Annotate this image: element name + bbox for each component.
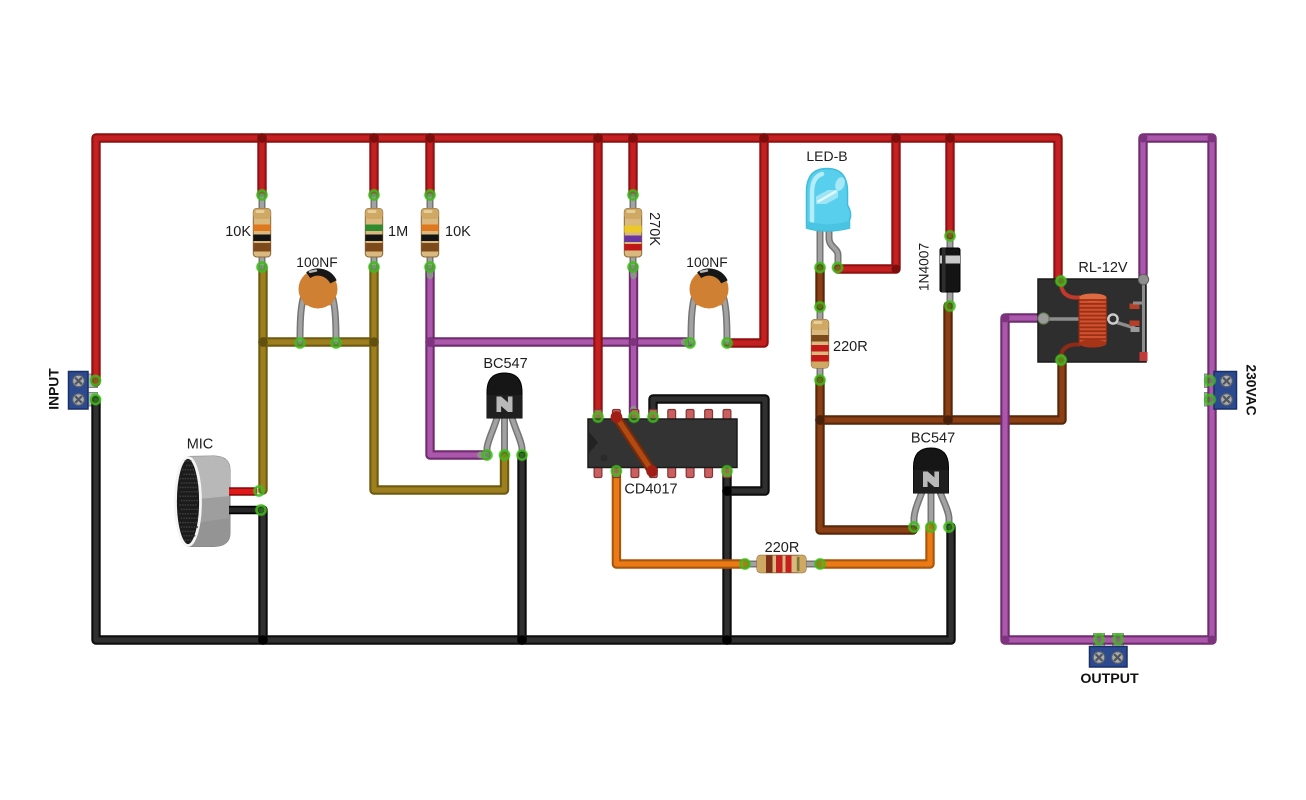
node R4 bottom xyxy=(627,261,640,274)
wire orange 220R to Q2 base xyxy=(820,527,930,564)
diode 1N4007 leads xyxy=(947,234,954,306)
resistor R2 1M xyxy=(365,209,382,258)
wire orange jumper over U1 xyxy=(611,411,658,477)
wire red drop to R4 270K xyxy=(628,138,637,195)
junction rail-D1 xyxy=(945,133,955,143)
wire red drop to R2 1M xyxy=(369,138,378,195)
relay armature xyxy=(1044,317,1110,320)
IC U1 CD4017 xyxy=(588,410,737,478)
junction loop-IC8 xyxy=(722,486,732,496)
node Q1 emitter xyxy=(516,449,529,462)
pin top 7 xyxy=(705,410,713,421)
resistor R1 10K leads xyxy=(259,196,266,267)
junction gnd-IC8 xyxy=(722,635,732,645)
node IC pin14 xyxy=(628,411,641,424)
capacitor C1 100NF xyxy=(299,270,338,309)
transistor Q2 BC547 xyxy=(914,448,949,493)
wire red main rail + input feed + relay feed xyxy=(96,138,1058,382)
svg-text:BC547: BC547 xyxy=(483,356,527,372)
mic black lead xyxy=(229,506,260,515)
junction pur-c4 xyxy=(1001,636,1010,645)
pin top 2 xyxy=(613,410,621,421)
node IC pin13 xyxy=(647,411,660,424)
svg-text:230VAC: 230VAC xyxy=(1244,364,1259,415)
svg-text:1M: 1M xyxy=(388,224,408,240)
node R2 top xyxy=(368,189,381,202)
pin bottom 8 xyxy=(723,467,731,478)
relay coil feed wires xyxy=(1061,282,1080,298)
capacitor C2 100NF leads xyxy=(691,299,727,342)
mic face xyxy=(176,458,201,546)
node C1 right xyxy=(330,337,343,350)
node D1 top xyxy=(944,230,957,243)
wire red drop to R3 10K xyxy=(425,138,434,195)
svg-text:10K: 10K xyxy=(225,224,251,240)
pin bottom 5 xyxy=(668,467,676,478)
node input pin2 xyxy=(89,393,102,406)
diode D1 1N4007 xyxy=(940,248,960,292)
pin bottom 3 xyxy=(631,467,639,478)
transistor Q1 BC547 xyxy=(487,373,522,418)
wire olive R2 1M to Q1 base xyxy=(374,267,505,490)
svg-text:CD4017: CD4017 xyxy=(624,482,677,498)
LED LED-B leads xyxy=(817,226,824,266)
terminal INPUT clamp pads xyxy=(87,374,98,388)
pin bottom 6 xyxy=(686,467,694,478)
svg-text:270K: 270K xyxy=(646,212,662,246)
relay coil xyxy=(1079,296,1107,344)
resistor R7 220R xyxy=(757,555,806,572)
svg-text:100NF: 100NF xyxy=(686,255,727,270)
node output pin2 xyxy=(1112,633,1125,646)
relay pin top-right xyxy=(1138,274,1148,284)
junction brown-T1 xyxy=(815,415,825,425)
wire black IC reset loop xyxy=(653,399,765,491)
junction pur-c3 xyxy=(1208,636,1217,645)
svg-text:1N4007: 1N4007 xyxy=(917,243,932,291)
node R5 bottom xyxy=(814,374,827,387)
junction rail-C2 xyxy=(759,133,769,143)
resistor R3 10K leads xyxy=(427,196,434,267)
wire brown 220R to Q2 collector xyxy=(820,380,913,530)
svg-text:RL-12V: RL-12V xyxy=(1078,260,1127,276)
node mic plus xyxy=(253,485,266,498)
svg-text:LED-B: LED-B xyxy=(806,148,847,164)
wire purple branch to C2 left xyxy=(430,337,690,346)
junction olive-T2 xyxy=(369,337,379,347)
relay pin mid-left xyxy=(1038,313,1049,324)
node IC pin16 xyxy=(592,411,605,424)
pin top 3 xyxy=(631,410,639,421)
svg-text:100NF: 100NF xyxy=(296,255,337,270)
resistor R2 1M leads xyxy=(371,196,378,267)
wire black IC pin8 to ground xyxy=(722,471,731,640)
node R1 top xyxy=(256,189,269,202)
node Q1 collector xyxy=(481,449,494,462)
relay pin top-left xyxy=(1056,276,1066,286)
svg-text:220R: 220R xyxy=(833,339,868,355)
node R4 top xyxy=(627,189,640,202)
resistor R5 220R leads xyxy=(817,306,824,380)
junction purple-T xyxy=(425,337,435,347)
terminal 230VAC clamp pads xyxy=(1205,374,1216,388)
wire brown LED anode chain to 220R xyxy=(815,268,824,306)
node C2 right xyxy=(721,337,734,350)
svg-text:MIC: MIC xyxy=(187,437,214,453)
wire olive R1 to mic+ xyxy=(258,267,267,490)
junction LED corner xyxy=(892,265,901,274)
terminal INPUT xyxy=(69,372,89,410)
node mic minus xyxy=(255,504,268,517)
junction pur-c1 xyxy=(1139,134,1148,143)
pin bottom 1 xyxy=(594,467,602,478)
mic red lead xyxy=(229,487,257,496)
terminal OUTPUT clamp pads xyxy=(1094,634,1105,648)
junction rail-R3 xyxy=(425,133,435,143)
wire purple R4 270K to IC pin14 xyxy=(629,267,638,417)
node R3 top xyxy=(424,189,437,202)
junction rail-R4 xyxy=(628,133,638,143)
node R7 left xyxy=(739,558,752,571)
svg-text:BC547: BC547 xyxy=(911,431,955,447)
node LED cathode xyxy=(831,261,844,274)
terminal OUTPUT xyxy=(1090,647,1128,668)
relay pivot xyxy=(1108,314,1117,323)
pin bottom 7 xyxy=(705,467,713,478)
junction rail-LED xyxy=(891,133,901,143)
node input pin1 xyxy=(89,374,102,387)
wire olive branch C1 row xyxy=(263,337,374,346)
svg-text:INPUT: INPUT xyxy=(47,368,62,410)
resistor R5 220R xyxy=(811,320,828,369)
junction rail-R1 xyxy=(257,133,267,143)
wire black mic to ground xyxy=(258,510,267,640)
wire red drop to LED cathode xyxy=(838,138,896,269)
node relay coil- xyxy=(1055,354,1068,367)
resistor R4 270K xyxy=(624,209,641,258)
junction rail-IC16 xyxy=(593,133,603,143)
transistor Q2 BC547 legs xyxy=(914,492,922,526)
relay pin bottom-left xyxy=(1056,355,1066,365)
wire black Q1 emitter to ground xyxy=(517,455,526,640)
pin top 4 xyxy=(649,410,657,421)
resistor R4 270K leads xyxy=(630,196,637,267)
relay right lead xyxy=(1142,281,1145,353)
pin bottom 2 xyxy=(613,467,621,478)
node 230vac pin2 xyxy=(1204,393,1217,406)
pin bottom 4 xyxy=(649,467,657,478)
wire red drop to R1 10K xyxy=(257,138,266,195)
wire brown branch to diode and relay coil xyxy=(820,361,1062,420)
svg-text:OUTPUT: OUTPUT xyxy=(1080,671,1139,687)
microphone MIC xyxy=(176,456,261,547)
junction purple-X xyxy=(630,338,638,346)
resistor R7 220R leads xyxy=(745,561,820,568)
wire red drop to D1 1N4007 xyxy=(945,138,954,235)
node R5 top xyxy=(814,301,827,314)
pin top 1 xyxy=(594,410,602,421)
LED LED-B xyxy=(807,169,851,232)
node C2 left xyxy=(684,337,697,350)
node Q2 base xyxy=(925,521,938,534)
node output pin1 xyxy=(1093,633,1106,646)
pin top 5 xyxy=(668,410,676,421)
resistor R3 10K xyxy=(421,209,438,258)
wire orange IC pin3 jumper xyxy=(616,417,652,471)
node Q2 collector xyxy=(908,521,921,534)
capacitor C1 100NF leads xyxy=(300,299,336,342)
transistor Q1 BC547 legs xyxy=(487,418,497,455)
resistor R1 10K xyxy=(253,209,270,258)
svg-text:220R: 220R xyxy=(765,540,800,556)
relay contacts xyxy=(1130,304,1140,310)
wire purple R3 to Q1 collector xyxy=(430,267,486,455)
node IC pin8b xyxy=(721,465,734,478)
wire brown diode to node xyxy=(943,306,952,420)
node relay coil+ xyxy=(1055,275,1068,288)
node IC pin3b xyxy=(610,465,623,478)
node R2 bottom xyxy=(368,261,381,274)
pin top 8 xyxy=(723,410,731,421)
svg-text:10K: 10K xyxy=(445,224,471,240)
node Q1 base xyxy=(498,449,511,462)
terminal 230VAC xyxy=(1214,372,1237,410)
wire red drop to C2 xyxy=(728,138,764,343)
junction brown-T2 xyxy=(943,415,953,425)
relay K1 RL-12V xyxy=(1038,274,1149,365)
wire black ground rail xyxy=(96,400,951,640)
node C1 left xyxy=(294,337,307,350)
junction gnd-Q1e xyxy=(517,635,527,645)
junction gnd-mic xyxy=(258,635,268,645)
junction rail-R2 xyxy=(369,133,379,143)
node LED anode xyxy=(814,261,827,274)
node R7 right xyxy=(814,558,827,571)
node D1 bottom xyxy=(944,300,957,313)
junction pur-c5 xyxy=(1001,314,1010,323)
node Q2 emitter xyxy=(943,521,956,534)
node 230vac pin1 xyxy=(1204,374,1217,387)
capacitor C2 100NF xyxy=(690,270,729,309)
purple wire grey tips xyxy=(630,268,636,276)
node R3 bottom xyxy=(424,261,437,274)
wire orange IC out to 220R xyxy=(616,471,745,564)
wire red drop to IC pin16 xyxy=(593,138,602,417)
junction olive-T1 xyxy=(258,337,268,347)
pin top 6 xyxy=(686,410,694,421)
junction pur-c2 xyxy=(1208,134,1217,143)
wire purple relay NO loop to output xyxy=(1005,138,1212,640)
node R1 bottom xyxy=(256,261,269,274)
